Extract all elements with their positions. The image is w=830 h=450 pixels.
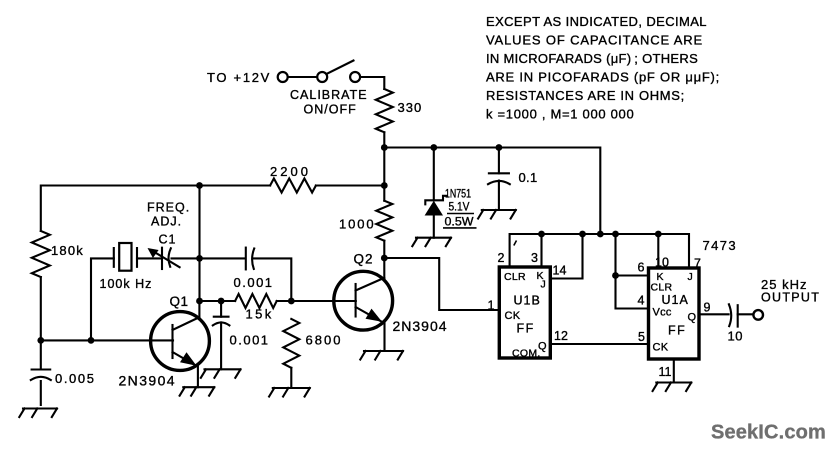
- svg-text:3: 3: [531, 251, 538, 265]
- svg-text:TO +12V: TO +12V: [207, 70, 271, 85]
- svg-text:0.001: 0.001: [234, 275, 274, 290]
- svg-text:CALIBRATE: CALIBRATE: [290, 88, 368, 102]
- svg-text:0.5W: 0.5W: [445, 217, 474, 229]
- svg-text:1N751: 1N751: [445, 189, 471, 201]
- svg-text:IN MICROFARADS (μF) ; OTHERS: IN MICROFARADS (μF) ; OTHERS: [486, 51, 698, 66]
- svg-text:RESISTANCES ARE IN OHMS;: RESISTANCES ARE IN OHMS;: [486, 88, 685, 103]
- svg-text:15k: 15k: [246, 307, 274, 322]
- svg-text:Vcc: Vcc: [653, 307, 672, 319]
- svg-text:OUTPUT: OUTPUT: [761, 291, 820, 305]
- svg-text:5.1V: 5.1V: [449, 202, 470, 214]
- svg-text:2N3904: 2N3904: [393, 318, 448, 334]
- svg-text:1: 1: [488, 299, 495, 313]
- svg-text:Q1: Q1: [170, 294, 189, 309]
- svg-text:10: 10: [655, 256, 669, 270]
- svg-text:5: 5: [638, 330, 645, 344]
- svg-text:J: J: [541, 279, 546, 291]
- svg-text:J: J: [688, 271, 693, 283]
- svg-text:180k: 180k: [51, 243, 84, 258]
- svg-text:FF: FF: [668, 324, 686, 338]
- svg-text:C1: C1: [159, 232, 177, 246]
- svg-text:330: 330: [398, 100, 423, 115]
- svg-text:0.001: 0.001: [230, 333, 270, 348]
- svg-text:k =1000 , M=1 000 000: k =1000 , M=1 000 000: [486, 107, 634, 122]
- svg-text:Q2: Q2: [354, 252, 374, 267]
- svg-text:CLR: CLR: [651, 282, 673, 294]
- svg-text:SeekIC.com: SeekIC.com: [711, 422, 826, 444]
- svg-text:Q: Q: [538, 341, 547, 353]
- svg-text:11: 11: [659, 365, 672, 379]
- svg-text:0.005: 0.005: [55, 371, 96, 386]
- svg-text:6: 6: [638, 261, 645, 275]
- svg-text:4: 4: [638, 294, 645, 308]
- svg-text:100k Hz: 100k Hz: [100, 277, 153, 291]
- svg-text:7: 7: [694, 257, 701, 271]
- svg-text:FREQ.: FREQ.: [147, 201, 190, 215]
- svg-text:2200: 2200: [270, 164, 311, 179]
- svg-text:CK: CK: [505, 310, 521, 322]
- svg-text:EXCEPT AS INDICATED, DECIMAL: EXCEPT AS INDICATED, DECIMAL: [486, 14, 707, 29]
- svg-text:CLR: CLR: [504, 271, 526, 283]
- svg-text:10: 10: [728, 329, 743, 344]
- svg-text:7473: 7473: [703, 238, 738, 253]
- svg-text:6800: 6800: [306, 333, 343, 348]
- svg-text:ARE IN PICOFARADS (pF OR μμF);: ARE IN PICOFARADS (pF OR μμF);: [486, 69, 720, 84]
- svg-text:U1A: U1A: [662, 293, 689, 307]
- svg-text:9: 9: [704, 301, 711, 315]
- svg-text:0.1: 0.1: [519, 170, 538, 185]
- svg-text:Q: Q: [688, 312, 697, 324]
- svg-text:ADJ.: ADJ.: [151, 214, 182, 228]
- svg-text:VALUES OF CAPACITANCE ARE: VALUES OF CAPACITANCE ARE: [486, 32, 703, 47]
- svg-text:2N3904: 2N3904: [119, 373, 176, 389]
- svg-text:14: 14: [553, 264, 567, 278]
- svg-text:CK: CK: [653, 342, 669, 354]
- svg-text:U1B: U1B: [514, 293, 541, 307]
- svg-text:2: 2: [498, 251, 505, 265]
- svg-text:FF: FF: [517, 321, 535, 335]
- svg-text:ON/OFF: ON/OFF: [304, 103, 357, 117]
- svg-text:12: 12: [554, 329, 568, 343]
- svg-text:COM.: COM.: [512, 347, 541, 359]
- svg-text:1000: 1000: [339, 217, 376, 232]
